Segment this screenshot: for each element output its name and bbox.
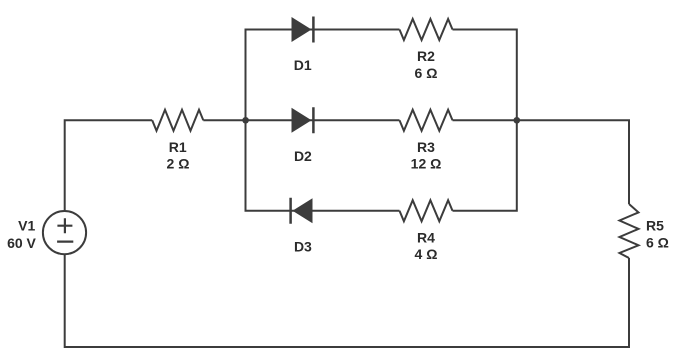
svg-text:6 Ω: 6 Ω: [415, 65, 438, 81]
svg-text:4 Ω: 4 Ω: [415, 246, 438, 262]
svg-text:R1: R1: [169, 139, 187, 155]
svg-text:R3: R3: [417, 139, 435, 155]
svg-text:D2: D2: [294, 148, 312, 164]
svg-text:60 V: 60 V: [7, 235, 36, 251]
svg-text:V1: V1: [18, 218, 35, 234]
svg-text:6 Ω: 6 Ω: [646, 235, 669, 251]
svg-text:R4: R4: [417, 229, 435, 245]
svg-text:12 Ω: 12 Ω: [411, 156, 442, 172]
svg-text:R5: R5: [646, 218, 664, 234]
svg-text:R2: R2: [417, 48, 435, 64]
svg-text:2 Ω: 2 Ω: [167, 156, 190, 172]
svg-text:D1: D1: [294, 57, 312, 73]
svg-text:D3: D3: [294, 238, 312, 254]
